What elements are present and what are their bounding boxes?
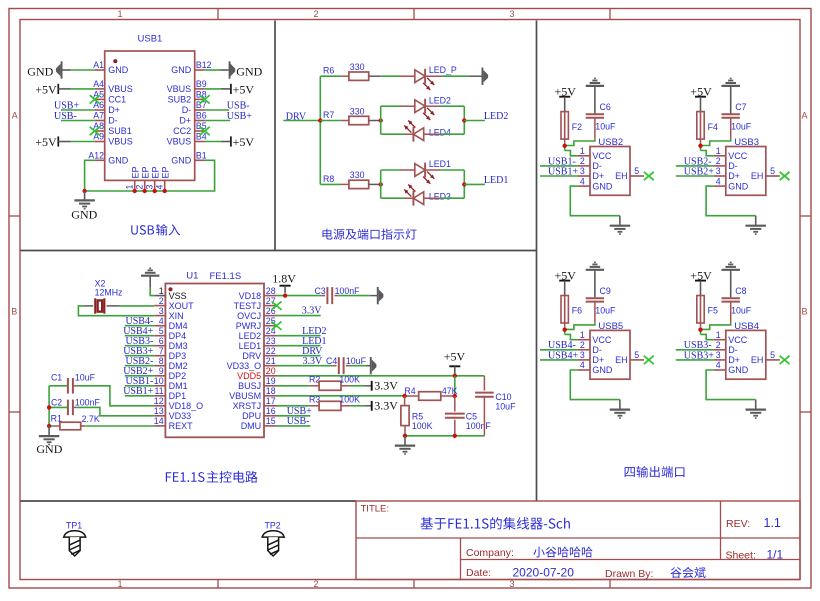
wire VDD5 pin 20 to +5V rail [277, 375, 485, 377]
svg-text:+5V: +5V [233, 82, 255, 96]
U1 pin 19 BUSJ [264, 385, 277, 387]
U1 pin 24 LED2 [264, 335, 277, 337]
wire net USB+ to A6 [61, 109, 95, 111]
svg-text:GND: GND [236, 65, 262, 79]
svg-text:A4: A4 [93, 79, 104, 89]
wire net 3.3V at pin 21 VD33_O [277, 365, 333, 367]
svg-text:D+: D+ [728, 171, 740, 181]
svg-text:VBUS: VBUS [108, 137, 133, 147]
wire net USB4+ to U1 pin 5 [125, 335, 154, 337]
svg-text:EH: EH [751, 355, 764, 365]
svg-text:11: 11 [154, 386, 163, 396]
wire net USB1+ to U1 pin 11 [125, 395, 154, 397]
svg-text:GND: GND [171, 65, 192, 75]
U1 pin 7 DP3 [154, 355, 165, 357]
junction dot below F5 [698, 328, 702, 332]
wire parallel branch left vertical [380, 170, 382, 198]
svg-text:14: 14 [154, 416, 164, 426]
junction dot A12 ground corner [82, 189, 86, 193]
svg-text:EH: EH [615, 171, 628, 181]
fuse F2 [561, 112, 568, 140]
USB1 pin 4 EP [164, 180, 166, 191]
power flag GND below USB5 [619, 400, 621, 410]
power flag GND right of C3 [370, 295, 377, 297]
U1 pin 26 OVCJ [264, 315, 277, 317]
USB5 pin 1 VCC [578, 339, 590, 341]
svg-text:C7: C7 [735, 102, 746, 112]
svg-text:2: 2 [313, 579, 318, 589]
USB1 pin A12 GND [95, 159, 105, 161]
svg-text:LED1: LED1 [429, 159, 451, 169]
svg-text:USB5: USB5 [598, 321, 623, 332]
wire capacitor C9 to VCC junction [565, 323, 595, 330]
svg-text:VDD5: VDD5 [237, 371, 261, 381]
wire net USB2- [676, 165, 714, 167]
wire B4 to +5V flag [205, 141, 221, 143]
U1 pin 9 DP2 [154, 375, 165, 377]
no-connect X on USB3 pin EH [780, 172, 790, 180]
row tick marks left [9, 215, 20, 217]
USB1 pin B7 D- [195, 109, 205, 111]
USB1 pin B1 GND [195, 159, 205, 161]
svg-text:100K: 100K [412, 421, 433, 431]
USB1 pin A6 D+ [95, 109, 105, 111]
svg-text:4: 4 [580, 360, 585, 370]
no-connect X on USB1 pin B5 [200, 127, 210, 135]
power flag +5V at USB1 pin B4 [230, 136, 232, 146]
wire parallel branch right vertical [463, 170, 465, 198]
svg-text:C3: C3 [314, 286, 325, 296]
svg-text:C6: C6 [600, 102, 611, 112]
no-connect X on USB1 pin B8 [200, 95, 210, 103]
wire A9 to +5V flag [71, 141, 95, 143]
wire B9 to +5V flag [205, 88, 221, 90]
svg-text:B1: B1 [196, 151, 207, 161]
svg-text:REXT: REXT [169, 421, 194, 431]
wire R1 to U1 pin 14 REXT [81, 425, 86, 427]
capacitor C10 10uF [483, 376, 485, 391]
svg-text:DMU: DMU [241, 421, 262, 431]
USB1 pin 2 EP [144, 180, 146, 191]
wire USB2 GND pin to ground [570, 186, 620, 216]
junction dot R5 bottom [403, 434, 407, 438]
svg-text:A5: A5 [93, 90, 104, 100]
power flag +5V at USB1 pin B9 [230, 84, 232, 94]
connector USB3 body [726, 147, 766, 196]
svg-text:+5V: +5V [35, 82, 57, 96]
U1 pin 13 VD33 [154, 415, 165, 417]
U1 pin 21 VD33_O [264, 365, 277, 367]
svg-text:DM4: DM4 [169, 321, 188, 331]
wire net USB4+ [540, 359, 578, 361]
svg-text:15: 15 [266, 416, 276, 426]
junction dot R4 right +5V [453, 394, 457, 398]
svg-text:B12: B12 [196, 60, 212, 70]
svg-text:D+: D+ [592, 171, 604, 181]
svg-text:12: 12 [154, 396, 164, 406]
svg-text:10uF: 10uF [75, 372, 96, 382]
USB1 pin B4 VBUS [195, 141, 205, 143]
svg-text:F4: F4 [708, 122, 718, 132]
junction dot below F4 [698, 144, 702, 148]
resistor R2 100K at pin 19 BUSJ [277, 385, 310, 387]
LED LED3 [381, 197, 404, 199]
svg-text:3: 3 [159, 306, 164, 316]
svg-text:R4: R4 [404, 386, 415, 396]
capacitor C8 10uF [730, 303, 732, 323]
wire capacitor C8 to VCC junction [701, 323, 731, 330]
svg-text:C8: C8 [735, 286, 746, 296]
svg-text:EP: EP [140, 166, 150, 178]
connector USB2 body [590, 147, 630, 196]
svg-text:D+: D+ [592, 355, 604, 365]
section label 电源及端口指示灯 [323, 229, 417, 240]
svg-text:C9: C9 [600, 286, 611, 296]
wire USB1 B1 to ground bus [85, 160, 215, 191]
section divider horizontal y=501 [21, 500, 357, 502]
wire R3 to 3.3V flag [350, 405, 364, 407]
svg-text:C2: C2 [51, 398, 62, 408]
wire USB1 A12 to ground bus [85, 160, 95, 191]
resistor R7 330 [320, 120, 341, 122]
svg-text:+5V: +5V [35, 135, 57, 149]
svg-text:1: 1 [159, 286, 164, 296]
wire to LED2 [381, 105, 400, 107]
USB1 pin B5 CC2 [195, 130, 205, 132]
USB1 pin B8 SUB2 [195, 98, 205, 100]
USB2 pin 4 GND [578, 185, 590, 187]
wire USB4 GND pin to ground [706, 370, 756, 400]
wire capacitor C6 to VCC junction [565, 139, 595, 146]
wire to net LED1 [464, 183, 485, 185]
title text 基于FE1.1S的集线器-Sch [420, 517, 569, 529]
title block line below Company row [461, 559, 801, 561]
svg-text:GND: GND [728, 365, 749, 375]
power flag GND above C6 [594, 87, 596, 114]
capacitor C9 10uF [594, 303, 596, 323]
svg-text:GND: GND [592, 181, 613, 191]
wire C3 to GND arrow [338, 295, 370, 297]
power flag GND below R5 [404, 436, 406, 446]
svg-text:C10: C10 [495, 392, 511, 402]
row tick marks right [800, 215, 811, 217]
svg-text:D-: D- [728, 345, 738, 355]
wire C2 left to ground rail [49, 406, 67, 408]
svg-text:3: 3 [509, 579, 514, 589]
wire net USB+ to B6 [205, 120, 230, 122]
USB1 pin B9 VBUS [195, 88, 205, 90]
wire B12 to GND flag [205, 69, 221, 71]
USB2 pin 1 VCC [578, 155, 590, 157]
wire net 3.3V at pin 26 OVCJ [277, 315, 321, 317]
svg-text:D-: D- [592, 161, 602, 171]
company name 小谷哈哈哈 [533, 546, 592, 557]
LED LED4 [381, 133, 404, 135]
svg-text:CC1: CC1 [108, 95, 126, 105]
svg-text:LED_P: LED_P [429, 65, 457, 75]
resistor R6 330 [320, 75, 341, 77]
svg-text:EP: EP [160, 166, 170, 178]
U1 pin 10 DM1 [154, 385, 165, 387]
capacitor C6 10uF [594, 119, 596, 139]
svg-text:DP4: DP4 [169, 331, 187, 341]
svg-text:16: 16 [266, 406, 276, 416]
power flag GND right of C4 [366, 365, 370, 367]
svg-text:A12: A12 [88, 151, 104, 161]
no-connect X on USB1 pin A8 [90, 127, 100, 135]
U1 pin 17 XRSTJ [264, 405, 277, 407]
svg-text:XIN: XIN [169, 311, 184, 321]
U1 pin 5 DP4 [154, 335, 165, 337]
USB1 pin 1 EP [134, 180, 136, 191]
svg-text:100nF: 100nF [335, 286, 361, 296]
svg-text:5: 5 [634, 166, 639, 176]
svg-text:VD33_O: VD33_O [227, 361, 262, 371]
svg-text:1: 1 [716, 146, 721, 156]
power flag 3.3V at R2 [365, 385, 372, 387]
wire A4 to +5V flag [71, 88, 95, 90]
junction dot 1.8V on pin 28 wire [283, 293, 287, 297]
USB2 pin 2 D- [578, 165, 590, 167]
U1 pin 6 DM3 [154, 345, 165, 347]
USB1 pin A4 VBUS [95, 88, 105, 90]
USB1 pin A1 GND [95, 69, 105, 71]
junction dot left of LED1/LED3 [379, 182, 383, 186]
svg-text:EP: EP [150, 166, 160, 178]
junction dots EP pins on ground bus [133, 189, 137, 193]
svg-text:A: A [801, 111, 807, 121]
U1 pin 16 DPU [264, 415, 277, 417]
USB1 pin A8 SUB1 [95, 130, 105, 132]
no-connect X on USB5 pin EH [644, 356, 654, 364]
svg-text:5: 5 [159, 326, 164, 336]
svg-text:VD18_O: VD18_O [169, 401, 204, 411]
svg-text:4: 4 [159, 316, 164, 326]
USB2 pin 5 EH [630, 175, 644, 177]
svg-text:4: 4 [716, 360, 721, 370]
junction dot right of LED2/LED4 [462, 118, 466, 122]
power flag GND above C7 [730, 87, 732, 114]
svg-text:9: 9 [159, 366, 164, 376]
svg-text:REV:: REV: [726, 518, 750, 530]
svg-text:DP2: DP2 [169, 371, 187, 381]
svg-text:6: 6 [159, 336, 164, 346]
svg-text:VBUSM: VBUSM [229, 391, 261, 401]
svg-text:F6: F6 [572, 306, 582, 316]
svg-text:VCC: VCC [728, 335, 748, 345]
junction dot C2 ground [47, 405, 51, 409]
title block vertical divider left cell [460, 538, 462, 580]
wire capacitor C7 to VCC junction [701, 139, 731, 146]
U1 pin 1 VSS [154, 295, 165, 297]
svg-text:PWRJ: PWRJ [236, 321, 262, 331]
svg-text:GND: GND [27, 65, 53, 79]
wire F6 to VCC junction [564, 327, 566, 335]
svg-text:22: 22 [266, 346, 276, 356]
U1 pin 18 VBUSM [264, 395, 277, 397]
no-connect X on USB2 pin EH [644, 172, 654, 180]
svg-text:EP: EP [130, 166, 140, 178]
svg-text:3: 3 [509, 9, 514, 19]
U1 pin 22 DRV [264, 355, 277, 357]
svg-text:GND: GND [36, 442, 62, 456]
svg-text:2: 2 [135, 185, 145, 190]
svg-text:100K: 100K [339, 395, 360, 405]
svg-text:3.3V: 3.3V [374, 398, 398, 412]
resistor R3 100K at pin 17 XRSTJ [277, 405, 310, 407]
wire LED2 to right branch [440, 105, 464, 107]
capacitor C5 100nF [454, 396, 456, 412]
svg-text:VD33: VD33 [169, 411, 192, 421]
svg-text:330: 330 [350, 106, 365, 116]
power flag GND at USB1 pin B12 [229, 61, 231, 78]
wire net LED1 at pin 23 [277, 345, 321, 347]
svg-text:1: 1 [117, 579, 122, 589]
svg-text:SUB1: SUB1 [108, 126, 132, 136]
svg-text:2: 2 [580, 156, 585, 166]
svg-text:+5V: +5V [233, 135, 255, 149]
svg-text:Date:: Date: [466, 567, 491, 579]
svg-text:18: 18 [266, 386, 276, 396]
svg-text:U1: U1 [186, 270, 198, 281]
svg-text:USB4: USB4 [734, 321, 759, 332]
svg-text:3: 3 [580, 350, 585, 360]
no-connect X on USB1 pin A5 [90, 95, 100, 103]
svg-text:D+: D+ [179, 116, 191, 126]
resistor R8 330 [320, 183, 341, 185]
svg-text:LED2: LED2 [429, 95, 451, 105]
power flag 3.3V at R3 [365, 405, 372, 407]
wire net USB- to A7 [61, 120, 95, 122]
svg-text:DPU: DPU [242, 411, 261, 421]
svg-text:3.3V: 3.3V [303, 356, 324, 367]
wire crystal to XIN pin 3 [84, 305, 93, 307]
svg-text:10uF: 10uF [731, 122, 752, 132]
section label FE1.1S主控电路 [166, 472, 205, 482]
svg-text:28: 28 [266, 286, 276, 296]
svg-text:21: 21 [266, 356, 276, 366]
USB2 pin 3 D+ [578, 175, 590, 177]
U1 pin 3 XIN [154, 315, 165, 317]
U1 pin 8 DM2 [154, 365, 165, 367]
svg-text:D-: D- [592, 345, 602, 355]
svg-text:A1: A1 [93, 60, 104, 70]
USB4 pin 2 D- [714, 349, 726, 351]
connector USB4 body [726, 330, 766, 379]
junction dot R1 ground [47, 424, 51, 428]
svg-text:2: 2 [313, 9, 318, 19]
wire net USB+ at pin 16 DPU [277, 415, 311, 417]
wire net USB- at pin 15 DMU [277, 425, 311, 427]
USB4 pin 3 D+ [714, 359, 726, 361]
svg-text:LED2: LED2 [484, 111, 508, 122]
section label USB输入 [131, 225, 154, 234]
wire net USB2+ [676, 175, 714, 177]
svg-text:F2: F2 [572, 122, 582, 132]
svg-text:USB3: USB3 [734, 137, 759, 148]
svg-text:C1: C1 [51, 372, 62, 382]
svg-text:VCC: VCC [592, 335, 612, 345]
wire USB5 GND pin to ground [570, 370, 620, 400]
svg-text:1: 1 [580, 146, 585, 156]
U1 pin 11 DP1 [154, 395, 165, 397]
svg-text:2020-07-20: 2020-07-20 [513, 566, 575, 580]
svg-text:B6: B6 [196, 111, 207, 121]
USB5 pin 3 D+ [578, 359, 590, 361]
svg-text:7: 7 [159, 346, 164, 356]
svg-text:3: 3 [145, 185, 155, 190]
USB1 pin 3 EP [154, 180, 156, 191]
wire crystal to XOUT pin 2 [107, 305, 120, 307]
wire to net LED2 [464, 120, 485, 122]
wire net USB1- [540, 165, 578, 167]
USB3 pin 1 VCC [714, 155, 726, 157]
U1 pin 20 VDD5 [264, 375, 277, 377]
wire VBUSM pin 18 to R4 R5 divider [277, 395, 405, 397]
wire USB3 GND pin to ground [706, 186, 756, 216]
wire F5 to VCC junction [700, 327, 702, 335]
svg-text:4: 4 [716, 176, 721, 186]
U1 pin 15 DMU [264, 425, 277, 427]
svg-text:D+: D+ [108, 105, 120, 115]
wire DRV branch vertical [319, 76, 321, 184]
LED LED2 [400, 105, 415, 107]
U1 pin 2 XOUT [154, 305, 165, 307]
junction dot R4 left VBUSM [402, 394, 406, 398]
USB1 pin A5 CC1 [95, 98, 105, 100]
junction dot below F6 [563, 328, 567, 332]
svg-text:LED4: LED4 [429, 128, 451, 138]
U1 pin 12 VD18_O [154, 405, 165, 407]
svg-text:EH: EH [751, 171, 764, 181]
svg-text:B: B [801, 307, 807, 317]
svg-text:A: A [12, 111, 18, 121]
svg-text:3.3V: 3.3V [374, 378, 398, 392]
wire net USB2- to U1 pin 8 [125, 365, 154, 367]
USB3 pin 2 D- [714, 165, 726, 167]
junction dot right of LED1/LED3 [462, 182, 466, 186]
ground rail left of C1 C2 R1 [48, 386, 50, 426]
svg-text:GND: GND [592, 365, 613, 375]
svg-text:+5V: +5V [444, 350, 466, 364]
svg-text:VBUS: VBUS [167, 137, 192, 147]
wire net USB1- to U1 pin 10 [125, 385, 154, 387]
svg-text:SUB2: SUB2 [168, 95, 192, 105]
svg-text:3: 3 [716, 166, 721, 176]
svg-text:BUSJ: BUSJ [238, 381, 261, 391]
svg-text:100nF: 100nF [75, 398, 101, 408]
svg-text:VCC: VCC [592, 151, 612, 161]
section divider vertical x=536.5 [536, 21, 538, 502]
svg-text:USB1+: USB1+ [123, 386, 153, 397]
svg-text:1: 1 [125, 185, 135, 190]
svg-text:FE1.1S: FE1.1S [210, 271, 242, 282]
section divider horizontal y=250.5 [21, 250, 537, 252]
fuse F4 [697, 112, 704, 140]
svg-text:LED1: LED1 [484, 175, 508, 186]
svg-text:VCC: VCC [728, 151, 748, 161]
svg-text:3: 3 [580, 166, 585, 176]
wire C4 to GND arrow [350, 365, 366, 367]
svg-text:GND: GND [71, 208, 97, 222]
wire net USB3+ [676, 359, 714, 361]
svg-text:5: 5 [770, 350, 775, 360]
wire LED3 to right branch [440, 197, 464, 199]
connector USB1 body [105, 51, 195, 180]
wire net USB4- to U1 pin 4 [125, 325, 154, 327]
USB3 pin 4 GND [714, 185, 726, 187]
wire LED1 to right branch [440, 169, 464, 171]
